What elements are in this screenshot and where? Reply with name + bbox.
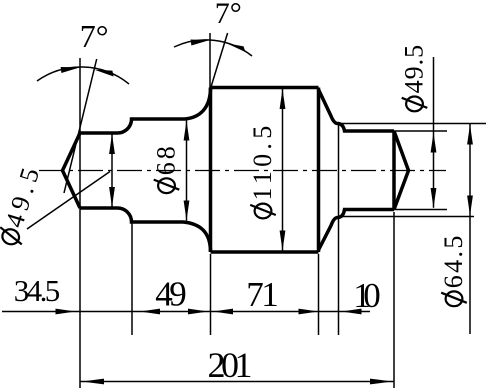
extension line A x=80 bbox=[79, 58, 81, 388]
phi68 dimension line bbox=[186, 121, 188, 221]
arrow 34.5 right bbox=[56, 309, 76, 315]
svg-text:34.5: 34.5 bbox=[14, 273, 61, 308]
extension line D x=319.5 bbox=[318, 254, 320, 335]
arrow 71 left at C bbox=[213, 309, 233, 315]
svg-text:71: 71 bbox=[246, 275, 279, 314]
svg-text:64.5: 64.5 bbox=[439, 233, 468, 288]
arrows phi110.5 dim bbox=[280, 89, 286, 109]
arrow 201 left bbox=[82, 379, 104, 385]
extension line E x=338.5 bbox=[338, 125, 340, 335]
extension line F x=394 bbox=[393, 212, 395, 388]
arrow 49 right at C bbox=[188, 309, 208, 315]
7deg right vertical reference bbox=[209, 33, 211, 88]
arrow left arc right end bbox=[95, 70, 114, 77]
left angle arc bbox=[37, 67, 129, 84]
extension line B x=132 bbox=[131, 223, 133, 335]
arrows phi64.5 dim bbox=[467, 125, 473, 145]
part outline: right cone tip bbox=[394, 131, 409, 210]
part outline: upper left journal + phi68 top bbox=[80, 88, 211, 134]
label phi49.5 left bbox=[0, 160, 46, 248]
taper construction line left 7deg bbox=[64, 59, 97, 193]
svg-text:201: 201 bbox=[208, 345, 253, 385]
right angle arc bbox=[174, 40, 252, 56]
part outline: right taper top + phi64.5 + right journal top bbox=[319, 90, 395, 132]
arrow right arc right end bbox=[227, 43, 246, 52]
svg-text:68: 68 bbox=[152, 143, 181, 175]
label phi68 bbox=[152, 143, 181, 193]
svg-text:49.5: 49.5 bbox=[400, 44, 429, 94]
centerline bbox=[39, 170, 446, 172]
arrows phi49.5 left dim bbox=[109, 134, 115, 154]
phi49.5 right dimension line bbox=[433, 57, 435, 208]
part outline: lower left journal + phi68 bottom bbox=[80, 208, 211, 252]
arrow 10 left at E bbox=[342, 309, 362, 315]
svg-text:10: 10 bbox=[353, 276, 381, 315]
svg-text:49: 49 bbox=[155, 275, 187, 314]
arrow 201 right bbox=[370, 379, 392, 385]
bottom dimension line 34.5/49/71/10 bbox=[2, 311, 370, 313]
label phi110.5 bbox=[248, 121, 277, 218]
label phi49.5 right bbox=[400, 44, 429, 111]
part outline: phi110.5 flange bbox=[211, 88, 319, 253]
arrow left arc left end bbox=[61, 67, 80, 73]
arrow 49 left at B bbox=[140, 309, 160, 315]
label phi64.5 bbox=[439, 233, 468, 306]
phi110.5 dimension line bbox=[282, 89, 284, 251]
right horizontal extension lines bbox=[340, 123, 486, 125]
leader line for phi49.5 left label bbox=[27, 172, 110, 230]
arrow 71 right at D bbox=[299, 309, 319, 315]
part outline: left cone tip bbox=[63, 133, 81, 208]
arrow right arc left end bbox=[191, 40, 209, 46]
part outline: right taper bottom + right journal bottom bbox=[319, 210, 395, 251]
part outline: right end face bbox=[392, 131, 396, 210]
svg-text:7°: 7° bbox=[80, 18, 109, 54]
svg-text:7°: 7° bbox=[215, 0, 242, 30]
extension line C x=210.5 bbox=[210, 254, 212, 335]
dimension line 201 bbox=[80, 381, 394, 383]
phi49.5 left dimension line bbox=[111, 134, 113, 208]
svg-text:110.5: 110.5 bbox=[248, 121, 277, 200]
arrows phi68 dim bbox=[184, 121, 190, 141]
phi64.5 dimension line bbox=[469, 124, 471, 334]
7deg right slant line bbox=[211, 33, 228, 89]
arrows phi49.5 right dim bbox=[431, 133, 437, 153]
